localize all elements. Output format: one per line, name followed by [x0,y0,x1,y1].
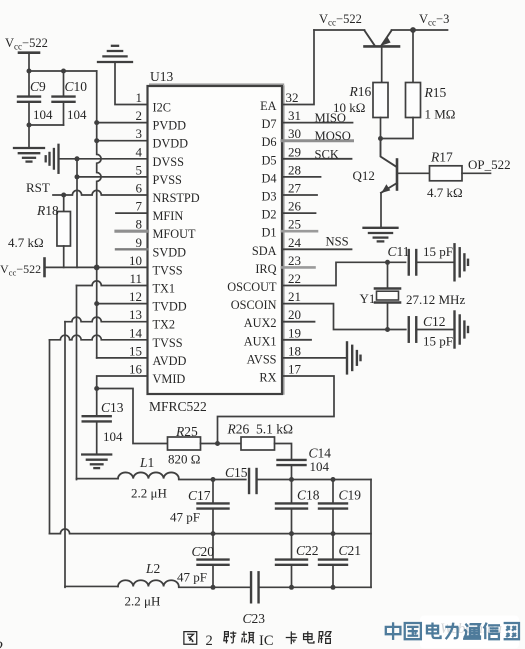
resistor R17 [430,166,463,181]
svg-text:19: 19 [288,325,301,340]
wire C23 to right corner [259,586,372,588]
wire right vertical edge [370,480,372,588]
svg-text:MFIN: MFIN [153,209,184,223]
resistor R18 bottom lead [63,246,65,267]
svg-text:NRSTPD: NRSTPD [153,191,200,205]
capacitor C17 bottom lead [212,509,214,534]
svg-text:8: 8 [136,217,143,232]
resistor R18 [57,212,70,247]
wire TVDD pin 12 [97,303,148,305]
wire C14 bottom lead [291,467,293,480]
caption figure 2 RF IC card circuit [184,632,197,645]
wire AVDD pin 15 [97,357,148,359]
node Y1 top junction [385,260,390,265]
svg-text:C21: C21 [339,543,362,558]
svg-text:NSS: NSS [326,235,349,249]
svg-text:TVSS: TVSS [153,263,183,277]
node DVDD junction [94,138,99,143]
pin stub MFOUT [116,230,148,233]
svg-text:C9: C9 [30,79,46,94]
ground right of C11 [453,244,455,280]
watermark China power telecom [420,616,519,649]
wire AVSS pin 18 [282,357,347,359]
capacitor C13 [83,415,111,417]
svg-text:12: 12 [129,289,142,304]
node C17 top junction [211,477,216,482]
svg-text:Q12: Q12 [353,168,375,183]
wire ground vertical pins 4-5 to pin10 rail [76,159,78,268]
svg-text:24: 24 [288,235,302,250]
capacitor C21 top lead [332,534,334,559]
ground right of C12 [453,312,455,348]
svg-text:SDA: SDA [252,244,277,258]
wire DVDD pin 3 [97,140,148,142]
svg-text:C23: C23 [243,611,266,626]
wire Vcc vertical bus with hops over pins 4-5 [97,71,101,358]
IC U13 MFRC522 body [148,86,283,394]
svg-text:MOSO: MOSO [315,129,351,143]
node C17 C20 junction [211,531,216,536]
svg-text:L1: L1 [139,455,154,470]
svg-text:5: 5 [136,162,143,177]
transistor Q-top PNP [365,31,375,46]
wire TVSS vertical [49,340,51,534]
wire R17 to OP_522 [462,172,491,174]
node R16 R15 junction [378,136,383,141]
node C14 bottom junction [289,477,294,482]
wire C15 to C14 node [257,479,372,481]
svg-text:Vcc−522: Vcc−522 [0,262,41,278]
wire C12 to ground [416,329,454,331]
svg-text:D3: D3 [261,190,276,204]
svg-text:22: 22 [288,271,301,286]
node DVSS junction [75,156,80,161]
node PVSS junction [75,174,80,179]
svg-text:15: 15 [129,343,142,358]
svg-text:U13: U13 [150,69,173,84]
svg-text:R18: R18 [36,203,59,218]
svg-text:21: 21 [288,289,301,304]
svg-text:C18: C18 [297,488,320,503]
capacitor C15 [248,469,250,493]
svg-text:SVDD: SVDD [153,245,187,259]
svg-text:28: 28 [288,162,301,177]
svg-text:16: 16 [129,362,143,377]
svg-text:MISO: MISO [315,111,347,125]
svg-text:C12: C12 [423,314,446,329]
svg-text:104: 104 [310,459,330,474]
svg-text:4.7 kΩ: 4.7 kΩ [8,235,44,250]
capacitor C21 [319,558,347,560]
node R25 R26 RX junction [215,441,220,446]
svg-text:EA: EA [260,99,277,113]
svg-text:27: 27 [288,181,302,196]
svg-text:3: 3 [136,126,143,141]
ground below Q12 [364,227,398,229]
wire PVDD pin 2 [97,122,148,124]
inductor L2 [118,580,179,586]
node C9 top junction [27,69,32,74]
svg-text:OSCOUT: OSCOUT [227,280,277,294]
wire Q12 base to R17 [397,172,430,174]
svg-text:18: 18 [288,343,301,358]
svg-text:DVSS: DVSS [153,155,185,169]
capacitor C19 top lead [332,480,334,504]
capacitor C23 [250,572,252,602]
svg-text:AVSS: AVSS [247,352,277,366]
svg-text:C19: C19 [339,488,362,503]
svg-text:R16: R16 [349,84,372,99]
resistor R16 [373,83,388,118]
svg-text:AVDD: AVDD [153,354,187,368]
svg-text:IRQ: IRQ [255,262,276,276]
wire TX2 pin 13 [65,317,148,322]
svg-text:OSCOIN: OSCOIN [231,298,277,312]
svg-text:2: 2 [206,633,213,649]
svg-text:47 pF: 47 pF [170,510,200,525]
crystal Y1 bottom lead [387,304,389,330]
wire R25 to node [201,443,218,445]
svg-text:AUX1: AUX1 [244,334,277,348]
capacitor C18 top lead [291,480,293,504]
wire OSCOUT pin 22 [282,262,406,285]
transistor Q12 NPN [396,160,399,190]
svg-text:C10: C10 [65,79,88,94]
wire Vcc to rail [28,54,30,71]
node pin10 Vcc bus junction [94,265,100,271]
svg-text:13: 13 [129,307,142,322]
power Vcc-522 top-left bar [19,51,39,54]
wire VMID pin 16 [97,376,148,389]
crystal Y1 [375,287,400,290]
svg-text:11: 11 [129,271,142,286]
svg-text:4.7 kΩ: 4.7 kΩ [427,185,463,200]
resistor R18 top lead [63,195,65,212]
capacitor C18 bottom lead [291,509,293,534]
wire DVSS pin 4 [59,158,148,160]
svg-text:OP_522: OP_522 [468,157,511,172]
wire C9 bottom lead [28,102,30,148]
capacitor C22 bottom lead [291,566,293,588]
wire TX1 vertical [76,286,78,480]
wire TVSS pin 14 [50,335,148,340]
svg-text:TX1: TX1 [153,282,176,296]
wire C10 top lead [63,71,65,97]
svg-text:TVSS: TVSS [153,336,183,350]
svg-text:15 pF: 15 pF [423,244,453,259]
wire base bias to Q12 [381,139,397,167]
capacitor C13 top lead [96,389,98,415]
capacitor C19 bottom lead [332,509,334,534]
svg-text:20: 20 [288,307,301,322]
svg-text:TVDD: TVDD [153,300,187,314]
ground below C13 [82,453,111,455]
capacitor C17 top lead [212,480,214,504]
wire C11 to ground [416,261,454,263]
wire C9 top lead [28,71,30,97]
svg-text:Vcc−522: Vcc−522 [5,36,48,52]
capacitor C18 [276,502,307,504]
svg-text:TX2: TX2 [153,318,176,332]
resistor R16 bottom lead [380,118,382,139]
pin stub MFIN [116,212,148,214]
wire TX1 corner to L1 [77,478,119,480]
wire TVSS pin 10 rail [45,266,148,268]
svg-text:32: 32 [286,90,299,105]
capacitor C22 top lead [291,534,293,559]
svg-text:C20: C20 [192,544,215,559]
svg-text:4: 4 [136,144,143,159]
wire I2C pin 1 [115,62,148,105]
svg-text:IC: IC [259,633,274,649]
resistor R15 [406,83,421,118]
svg-text:RX: RX [259,371,276,385]
svg-text:D7: D7 [261,117,276,131]
node cap rail junction [27,123,32,128]
capacitor C21 bottom lead [332,566,334,588]
capacitor C20 top lead [212,534,214,559]
svg-text:D2: D2 [261,208,276,222]
svg-text:C17: C17 [188,488,211,503]
wire middle rail [50,529,372,534]
svg-text:PVSS: PVSS [153,173,183,187]
svg-text:820 Ω: 820 Ω [168,452,200,467]
capacitor C9 [18,95,40,97]
svg-text:D1: D1 [261,226,276,240]
wire L1 to C15 [179,479,246,481]
svg-text:D5: D5 [261,153,276,167]
wire emitter to Vcc-3 [392,29,448,31]
node C18 C22 junction [289,531,294,536]
svg-text:C11: C11 [388,244,410,259]
svg-text:17: 17 [288,362,302,377]
svg-text:C22: C22 [296,543,319,558]
svg-text:SCK: SCK [315,148,340,162]
ground inverted above I2C [98,61,132,63]
wire TX2 vertical [64,322,66,588]
capacitor C20 [198,558,229,560]
svg-text:7: 7 [136,199,143,214]
node C21 bottom junction [331,585,336,590]
node Y1 bottom junction [385,327,390,332]
svg-text:25: 25 [288,217,301,232]
svg-text:L2: L2 [145,561,160,576]
wire RX hook [218,376,335,444]
resistor R26 [241,437,275,450]
capacitor C12 [408,317,410,342]
svg-text:DVDD: DVDD [153,137,189,151]
wire node to R26 [218,443,242,445]
wire PVSS pin 5 [77,176,148,178]
power Vcc-522 left bar [43,259,46,277]
wire RST to NRSTPD pin 6 [53,190,148,195]
svg-text:104: 104 [67,107,87,122]
svg-text:R15: R15 [424,85,447,100]
ground right of AVSS [346,342,348,373]
inductor L1 [118,472,179,478]
node VMID junction [94,386,99,391]
wire R15 bottom lead [381,118,414,139]
svg-text:D6: D6 [261,135,276,149]
wire top decoupling rail [29,70,97,72]
svg-text:AUX2: AUX2 [244,316,277,330]
wire OSCOIN pin 21 [282,304,406,330]
svg-text:C13: C13 [101,400,124,415]
svg-text:I2C: I2C [153,101,171,115]
svg-text:VMID: VMID [153,372,186,386]
wire EA to transistor [314,29,365,31]
crystal Y1 top lead [387,262,389,288]
capacitor C14 [278,459,306,461]
capacitor C17 [198,502,229,504]
svg-text:2: 2 [0,639,4,649]
svg-text:1: 1 [136,90,143,105]
node C22 bottom junction [289,585,294,590]
svg-text:R17: R17 [430,150,453,165]
capacitor C22 [276,558,307,560]
resistor R15 top lead [412,30,414,83]
svg-text:29: 29 [288,144,301,159]
node C19 top junction [331,477,336,482]
svg-text:6: 6 [136,181,143,196]
wire VMID to R25 bracket [97,389,168,444]
wire R26 to C14 [275,444,292,459]
svg-text:14: 14 [129,325,143,340]
svg-text:Vcc−522: Vcc−522 [319,12,362,28]
svg-text:15 pF: 15 pF [423,334,453,349]
svg-text:2.2 μH: 2.2 μH [125,594,161,609]
svg-text:47 pF: 47 pF [177,570,207,585]
svg-text:MFRC522: MFRC522 [149,399,207,414]
wire TX2 corner to L2 [65,585,118,587]
svg-text:26: 26 [288,199,302,214]
wire TX1 pin 11 [77,281,148,286]
svg-text:2.2 μH: 2.2 μH [131,486,167,501]
wire EA pin 32 [282,30,314,105]
resistor R25 [168,437,201,450]
svg-text:C15: C15 [225,465,248,480]
pin stub SVDD [116,248,148,250]
svg-text:R26 5.1 kΩ: R26 5.1 kΩ [227,422,294,437]
right pin stubs D7-D1 SDA IRQ AUX [282,122,353,124]
svg-text:RST: RST [26,180,50,195]
svg-text:23: 23 [288,253,301,268]
node PVDD junction [94,120,99,125]
ground below C9 [14,147,44,149]
node C20 bottom junction [211,585,216,590]
svg-text:1 MΩ: 1 MΩ [425,107,456,122]
wire C10 bottom lead [63,102,65,125]
capacitor C20 bottom lead [212,566,214,588]
node C19 C21 junction [331,531,336,536]
svg-text:Y1: Y1 [360,291,376,306]
svg-text:D4: D4 [261,171,276,185]
capacitor C11 [408,250,410,274]
node C10 top junction [61,69,66,74]
ground sideways left of DVSS [57,145,59,173]
svg-text:104: 104 [33,107,53,122]
svg-text:27.12 MHz: 27.12 MHz [406,292,465,307]
capacitor C19 [319,502,347,504]
svg-text:Vcc−3: Vcc−3 [419,12,449,28]
wire cap ground rail [29,124,64,126]
capacitor C10 [53,95,75,97]
wire L2 to C23 [179,586,251,588]
node R18 top junction [61,193,66,198]
svg-text:30: 30 [288,126,301,141]
svg-text:9: 9 [136,235,143,250]
svg-text:10: 10 [129,253,142,268]
svg-text:2: 2 [136,108,143,123]
capacitor C13 bottom lead [96,423,98,453]
svg-text:31: 31 [288,108,301,123]
svg-text:MFOUT: MFOUT [153,227,197,241]
node TVDD junction [94,301,99,306]
svg-text:PVDD: PVDD [153,119,187,133]
svg-text:104: 104 [103,429,123,444]
node R15 top junction [410,27,416,33]
